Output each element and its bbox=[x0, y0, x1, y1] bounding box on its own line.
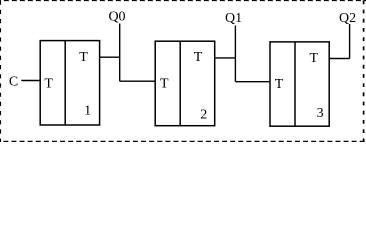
T flip-flop 3 (box) bbox=[270, 42, 329, 126]
wire flip-flop 2 output bbox=[215, 57, 236, 59]
svg-text:Q2: Q2 bbox=[339, 11, 356, 26]
wire Q1 to flip-flop 3 input bbox=[235, 81, 270, 83]
svg-text:2: 2 bbox=[200, 108, 207, 123]
svg-text:T: T bbox=[194, 50, 203, 65]
svg-text:T: T bbox=[44, 76, 53, 91]
svg-text:1: 1 bbox=[84, 104, 91, 119]
svg-text:Q0: Q0 bbox=[108, 10, 125, 25]
wire Q0 to flip-flop 2 input bbox=[120, 80, 156, 82]
svg-text:3: 3 bbox=[317, 106, 324, 121]
svg-text:T: T bbox=[160, 77, 169, 92]
wire flip-flop 3 output bbox=[329, 58, 349, 60]
wire C to flip-flop 1 input bbox=[21, 80, 40, 82]
svg-text:Q1: Q1 bbox=[225, 11, 242, 26]
wire Q0 vertical bbox=[119, 24, 121, 82]
T flip-flop 2 (box) bbox=[155, 41, 215, 126]
wire flip-flop 1 output bbox=[100, 56, 120, 58]
T flip-flop 1 (box) bbox=[40, 41, 99, 125]
wire Q2 vertical bbox=[349, 24, 351, 59]
svg-text:T: T bbox=[79, 50, 88, 65]
svg-text:C: C bbox=[9, 75, 18, 90]
svg-text:T: T bbox=[275, 77, 284, 92]
wire Q1 vertical bbox=[234, 26, 236, 82]
svg-text:T: T bbox=[310, 51, 319, 66]
